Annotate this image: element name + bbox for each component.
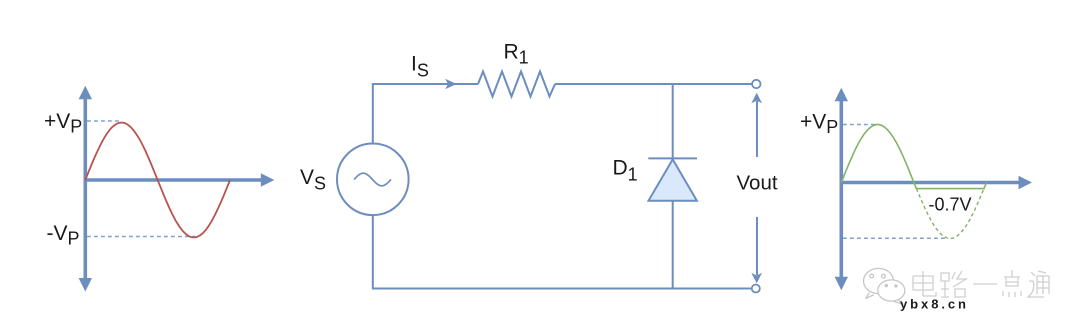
wire: top wire to diode — [672, 84, 674, 158]
wire: source bottom to bottom-left corner — [373, 215, 753, 288]
dashed -Vp level line (output) — [843, 237, 946, 239]
一 — [973, 283, 997, 285]
output waveform solid (green) — [841, 125, 986, 189]
svg-text:D1: D1 — [613, 157, 638, 185]
路 — [941, 271, 966, 297]
input sine wave (red) — [85, 123, 230, 238]
output waveform clipped half dashed (green) — [916, 189, 984, 239]
Vout up arrow — [751, 93, 762, 157]
svg-text:VS: VS — [300, 166, 326, 194]
ac voltage source U1 — [337, 144, 409, 216]
watermark wechat bubble large — [864, 268, 894, 298]
svg-text:+VP: +VP — [800, 111, 838, 138]
dashed -Vp level line (input) — [87, 236, 195, 238]
output graph vertical axis — [835, 88, 848, 290]
dashed +Vp level line (input) — [87, 120, 121, 122]
dashed +Vp level line (output) — [843, 124, 877, 126]
diode D1 cathode bar — [648, 157, 697, 159]
svg-text:-VP: -VP — [47, 222, 80, 249]
电 — [913, 271, 936, 296]
resistor R1 — [478, 72, 555, 97]
input graph horizontal axis — [85, 173, 274, 186]
Vout down arrow — [751, 217, 762, 283]
wire: resistor to output top terminal — [555, 83, 752, 85]
output bottom terminal — [752, 285, 760, 293]
input graph vertical axis — [79, 86, 92, 292]
output graph horizontal axis — [841, 176, 1032, 189]
svg-text:+VP: +VP — [44, 110, 82, 137]
current direction arrow — [445, 79, 456, 89]
svg-text:IS: IS — [411, 53, 429, 81]
watermark text dianlu yidiantong (simplified strokes) — [913, 270, 1049, 297]
svg-text:ybx8.cn: ybx8.cn — [900, 297, 966, 312]
wire: source top to top-left corner — [373, 84, 478, 144]
svg-text:Vout: Vout — [737, 172, 778, 195]
diode D1 triangle — [649, 159, 697, 200]
output top terminal — [752, 80, 760, 88]
通 — [1028, 271, 1049, 297]
sine symbol inside source — [354, 173, 391, 186]
svg-text:R1: R1 — [504, 41, 529, 68]
wire: diode to bottom wire — [672, 201, 674, 289]
watermark wechat bubble small — [878, 280, 905, 304]
点 — [1003, 270, 1021, 297]
svg-text:-0.7V: -0.7V — [929, 195, 972, 215]
